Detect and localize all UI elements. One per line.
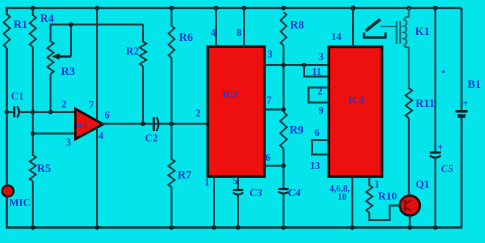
pin 6 wire IC2 [265, 165, 285, 167]
wire R8 bottom to pin3 cross [283, 46, 285, 67]
svg-text:2: 2 [196, 109, 201, 120]
svg-text:R9: R9 [290, 125, 304, 137]
svg-text:C5: C5 [441, 164, 453, 175]
capacitor C5 top plate [430, 151, 441, 153]
svg-text:7: 7 [89, 100, 94, 111]
wire R6 bottom lead to output wire [171, 58, 173, 125]
svg-text:14: 14 [331, 32, 342, 43]
wire R3 bottom lead [50, 74, 52, 113]
svg-text:4: 4 [99, 131, 104, 142]
resistor R5 [30, 155, 36, 181]
relay mechanical link [380, 26, 396, 28]
wire op-amp pin 3 [33, 133, 76, 135]
wire IC3 ground pins to bottom rail [351, 177, 353, 229]
svg-text:6: 6 [105, 111, 110, 122]
wire R3 wiper up to feedback wire [70, 24, 72, 57]
wire pins 6-13 strap loop [312, 140, 329, 155]
svg-text:R7: R7 [178, 170, 192, 182]
wire R6 top lead [171, 8, 173, 26]
relay core lines [396, 21, 398, 44]
svg-text:R8: R8 [290, 20, 304, 32]
svg-text:R5: R5 [37, 163, 51, 175]
node R8 / pin3 wire cross [281, 63, 286, 68]
pin 7 wire IC2 [265, 109, 285, 111]
wire R5 leads [32, 134, 34, 157]
microphone MIC [2, 185, 14, 196]
capacitor C3 curved plate [233, 193, 243, 195]
wire R7 top lead [171, 124, 173, 160]
svg-text:6: 6 [315, 128, 320, 139]
svg-text:2: 2 [62, 100, 67, 111]
node R7 ground [169, 225, 174, 230]
pin 5 wire IC2 [237, 177, 239, 190]
svg-text:K1: K1 [415, 26, 430, 38]
wire pins 2-9 strap loop [309, 88, 330, 103]
wire left rail C1 node to MIC [6, 111, 8, 186]
node R4 / input wire junction [31, 110, 36, 115]
svg-text:13: 13 [310, 161, 320, 172]
wire R3 top lead from feedback wire corner [51, 25, 144, 43]
wire top supply rail [6, 7, 462, 9]
relay switch blade [366, 19, 381, 31]
node pin7 / R9 junction [281, 107, 286, 112]
node R5 ground [31, 225, 36, 230]
node R6 top on supply rail [169, 6, 174, 11]
wire R4 bottom lead to input node [32, 47, 34, 113]
capacitor C1 (straight plate) [13, 106, 15, 117]
svg-text:C4: C4 [288, 187, 301, 199]
wire R9 bottom to pin6 junction [283, 149, 285, 167]
resistor R7 [168, 159, 174, 187]
svg-text:+: + [463, 99, 469, 110]
svg-text:3: 3 [66, 138, 71, 149]
node coil top on supply rail [407, 6, 412, 11]
resistor R1 [4, 14, 10, 48]
wire battery rail lower [460, 118, 462, 229]
wire R2 top lead from feedback corner [142, 25, 144, 43]
node wiper / feedback wire junction [69, 22, 74, 27]
stray mark [442, 70, 445, 73]
wire C5 branch upper [434, 8, 436, 153]
node pin14 on supply rail [350, 5, 355, 10]
svg-text:1: 1 [205, 178, 210, 189]
capacitor C2 curved plate [157, 117, 159, 131]
capacitor C5 curved plate [430, 156, 441, 158]
wire C3 to ground [237, 194, 239, 229]
svg-text:R1: R1 [14, 19, 28, 31]
node C1 tap on left rail [5, 110, 10, 115]
potentiometer R3 wiper arrow [52, 53, 60, 60]
transistor Q1 [400, 196, 420, 216]
node R8 top on supply rail [281, 6, 286, 11]
svg-text:3: 3 [319, 52, 324, 63]
wire left rail upper (top rail to R1) [6, 7, 8, 15]
svg-text:R2: R2 [126, 47, 139, 58]
wire C5 branch lower [434, 157, 436, 229]
svg-text:10: 10 [338, 192, 348, 202]
svg-text:2: 2 [318, 87, 323, 98]
pin 8 wire IC2 [242, 6, 247, 11]
svg-text:R3: R3 [61, 66, 75, 78]
resistor R6 [169, 26, 175, 59]
capacitor C3 top plate [233, 189, 243, 191]
wire battery rail upper [460, 8, 462, 111]
wire down to pin7 junction [283, 65, 285, 111]
wire left rail MIC to bottom rail [6, 196, 8, 228]
wire pin 14 from supply rail [352, 8, 354, 47]
node pin3 tee [31, 131, 36, 136]
resistor R11 [406, 88, 413, 118]
svg-text:+: + [438, 143, 444, 154]
relay coil K1 [404, 8, 409, 89]
wire op-amp output [101, 123, 208, 125]
pin 1 wire IC2 to ground [213, 177, 215, 229]
svg-text:B1: B1 [468, 79, 482, 91]
wire C1 to op-amp pin 2 [18, 111, 75, 113]
wire bottom ground rail [6, 226, 462, 229]
svg-text:R6: R6 [179, 32, 193, 44]
resistor R3 (potentiometer body) [47, 41, 53, 74]
svg-text:8: 8 [237, 28, 242, 39]
node R6 / output junction [169, 121, 174, 126]
wire R10 to Q1 base (Z path) [369, 206, 400, 221]
wire R4 top lead [32, 8, 34, 16]
svg-text:MIC: MIC [9, 198, 31, 209]
IC U3 (IC3 counter) [329, 47, 382, 177]
relay fixed contact bracket [364, 33, 386, 38]
pin 3 wire IC2 to IC3 [265, 64, 330, 66]
svg-text:R4: R4 [40, 13, 54, 25]
wire pin6 node to C4 [283, 166, 285, 190]
wire left rail R1 to C1 node [6, 48, 8, 113]
wire left rail to C1 [7, 111, 14, 113]
capacitor C4 curved plate [278, 192, 288, 194]
svg-text:IC2: IC2 [223, 91, 239, 101]
svg-text:Q1: Q1 [416, 179, 430, 191]
svg-text:7: 7 [267, 96, 272, 107]
svg-text:IC1: IC1 [77, 123, 87, 130]
pin 4 wire to ground rail [96, 128, 98, 228]
pin 7 wire from supply rail [95, 6, 100, 11]
wire R7 bottom lead [171, 187, 173, 228]
svg-text:3: 3 [268, 50, 273, 61]
capacitor C1 curved plate [17, 106, 19, 117]
resistor R4 [30, 15, 36, 47]
resistor R10 [366, 185, 372, 213]
svg-text:9: 9 [319, 106, 324, 117]
node R2 / output junction [141, 121, 146, 126]
resistor R8 [281, 12, 287, 46]
capacitor C4 top plate [278, 188, 288, 190]
battery B1 [456, 110, 468, 113]
wire pin 11 branch [304, 65, 329, 77]
pin 4 wire IC2 [214, 6, 219, 11]
node C5 top on supply rail [433, 6, 438, 11]
svg-text:C2: C2 [145, 134, 158, 145]
wire C4 to ground [283, 193, 285, 229]
op-amp U1 (IC1) [75, 109, 103, 139]
wire R11 to Q1 collector [408, 118, 410, 196]
wire pin 1 lead [368, 177, 370, 187]
svg-text:4: 4 [211, 28, 216, 39]
wire Q1 emitter to ground [409, 215, 411, 228]
wire R4 node down to pin3 tee [32, 112, 34, 135]
node pin11 branch tee [302, 63, 307, 68]
node R4 top on supply rail [31, 6, 36, 11]
svg-text:R10: R10 [378, 191, 397, 203]
svg-text:IC3: IC3 [349, 97, 365, 107]
node pin6 / C4 junction [281, 163, 286, 168]
IC U2 (IC2 timer) [208, 47, 265, 177]
node R3 / input wire junction [48, 110, 53, 115]
svg-text:C1: C1 [11, 92, 24, 103]
svg-text:6: 6 [266, 153, 271, 164]
wire R2 bottom lead [142, 66, 144, 125]
svg-text:11: 11 [312, 67, 321, 78]
svg-text:1: 1 [375, 180, 380, 191]
svg-text:C3: C3 [250, 187, 263, 199]
svg-text:R11: R11 [416, 98, 435, 110]
resistor R9 [280, 112, 287, 149]
capacitor C2 straight plate [153, 117, 155, 131]
svg-text:5: 5 [233, 176, 238, 187]
resistor R2 [140, 42, 147, 67]
